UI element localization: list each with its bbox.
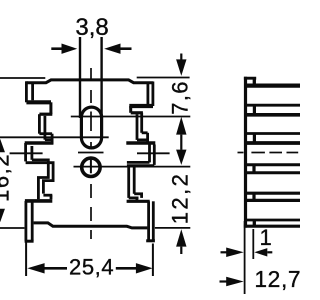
bottom reference line, left (16,2 lower reference) — [0, 227, 24, 229]
front view body: top edge — [26, 80, 153, 83]
slot lower-arc center line (16,2 upper reference) — [0, 136, 109, 138]
front view: left solder leg — [25, 201, 34, 241]
dimension 25,4 extension ticks — [26, 242, 153, 277]
side view: spine — [244, 77, 247, 228]
vertical center line (dash-dot) — [90, 68, 92, 239]
side view: fin 5 — [247, 193, 301, 200]
svg-text:25,4: 25,4 — [69, 254, 114, 279]
dimension 16,2 upper arrowhead (up, clipped at left edge) — [0, 139, 5, 152]
front view: right solder leg — [146, 201, 155, 241]
front view body: right castellated fin edge — [126, 82, 155, 202]
side view: fin 6 (bottom) — [244, 220, 300, 226]
bottom reference line, right (12,2 lower reference) — [155, 227, 190, 229]
horizontal mid center line, right segment — [137, 152, 170, 154]
side view: fin 4 — [247, 165, 301, 173]
side view: extension line at spine left face — [244, 221, 246, 294]
dimension 12,7 left arrow — [220, 280, 227, 282]
dimension 25,4 arrow shafts — [44, 267, 137, 270]
dimension 3,8 extension line left — [79, 37, 81, 118]
horizontal mid center line, middle segment — [78, 152, 104, 154]
hole horizontal center line (12,2 upper reference) — [74, 166, 191, 168]
svg-text:16,2: 16,2 — [0, 153, 14, 202]
dimension 12,2 bottom arrowhead (up) — [176, 229, 186, 246]
dimension 7,6 top arrowhead (down) — [176, 59, 186, 76]
round mounting hole — [82, 158, 100, 176]
dimension 3,8 left arrowhead — [62, 44, 78, 54]
oblong mounting slot — [81, 107, 101, 148]
dimension 1 left arrow — [221, 251, 227, 253]
dimension 12,2 top arrowhead (down) — [176, 150, 186, 165]
dimension 7,6 bottom arrowhead (up) — [176, 117, 186, 135]
hole cross vertical arm — [90, 160, 92, 174]
top reference line, right (7,6 upper reference) — [137, 77, 190, 79]
dimension 3,8 extension line right — [100, 37, 102, 118]
dimension 25,4 right arrowhead — [136, 263, 153, 273]
svg-text:12,2: 12,2 — [167, 172, 192, 224]
dimension line for 7,6 and 12,2 (x=181.3) — [180, 54, 182, 255]
dimension 1 right arrow — [254, 248, 267, 256]
svg-text:12,7: 12,7 — [254, 266, 300, 292]
side view: extension line for dimension 1 — [252, 229, 254, 259]
dimension 25,4 left arrowhead — [27, 263, 44, 273]
top reference line, left — [0, 77, 45, 79]
dimension 3,8 arrow shafts — [51, 47, 131, 50]
side view: fin 3 — [247, 134, 301, 144]
dimension 3,8 right arrowhead — [104, 44, 120, 54]
front view body: left castellated fin edge — [25, 81, 54, 201]
horizontal mid center line, left segment — [10, 152, 43, 154]
slot upper-arc center line (7,6 lower reference) — [71, 116, 191, 118]
svg-text:1: 1 — [260, 225, 272, 250]
svg-text:3,8: 3,8 — [75, 14, 108, 41]
side view: fin 1 (top) — [244, 78, 300, 87]
dimension 16,2 lower arrowhead (down, clipped at left edge) — [0, 209, 5, 222]
side view: horizontal center dash line — [238, 152, 299, 154]
front view body: bottom edge — [34, 223, 148, 228]
svg-text:7,6: 7,6 — [167, 80, 192, 114]
side view: fin 2 — [247, 105, 301, 115]
